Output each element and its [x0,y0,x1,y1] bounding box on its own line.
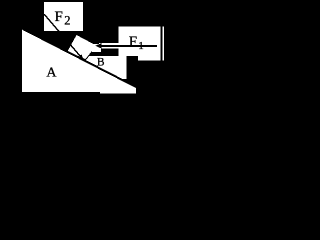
svg-text:1: 1 [138,40,144,52]
pocket white region below block [80,56,127,79]
white sliver right of F1 box border [162,27,164,61]
F1 arrow ribbon white [92,44,101,52]
notch black rect over F1 box bottom-left [127,56,139,75]
block B white fill [67,34,97,60]
background [0,0,164,104]
incline surface line [22,29,136,88]
F1 arrowhead [96,43,102,49]
svg-text:2: 2 [64,13,70,27]
label box F2 [44,2,83,31]
wedge A white fill [22,29,136,93]
svg-text:F: F [129,34,137,50]
svg-text:B: B [97,57,105,69]
F1 arrow shaft [100,45,158,47]
svg-text:F: F [55,9,63,25]
F2 leader line [44,14,84,60]
svg-text:A: A [46,66,57,81]
label box F1 [119,27,161,61]
F2 leader arrowhead [78,54,84,60]
